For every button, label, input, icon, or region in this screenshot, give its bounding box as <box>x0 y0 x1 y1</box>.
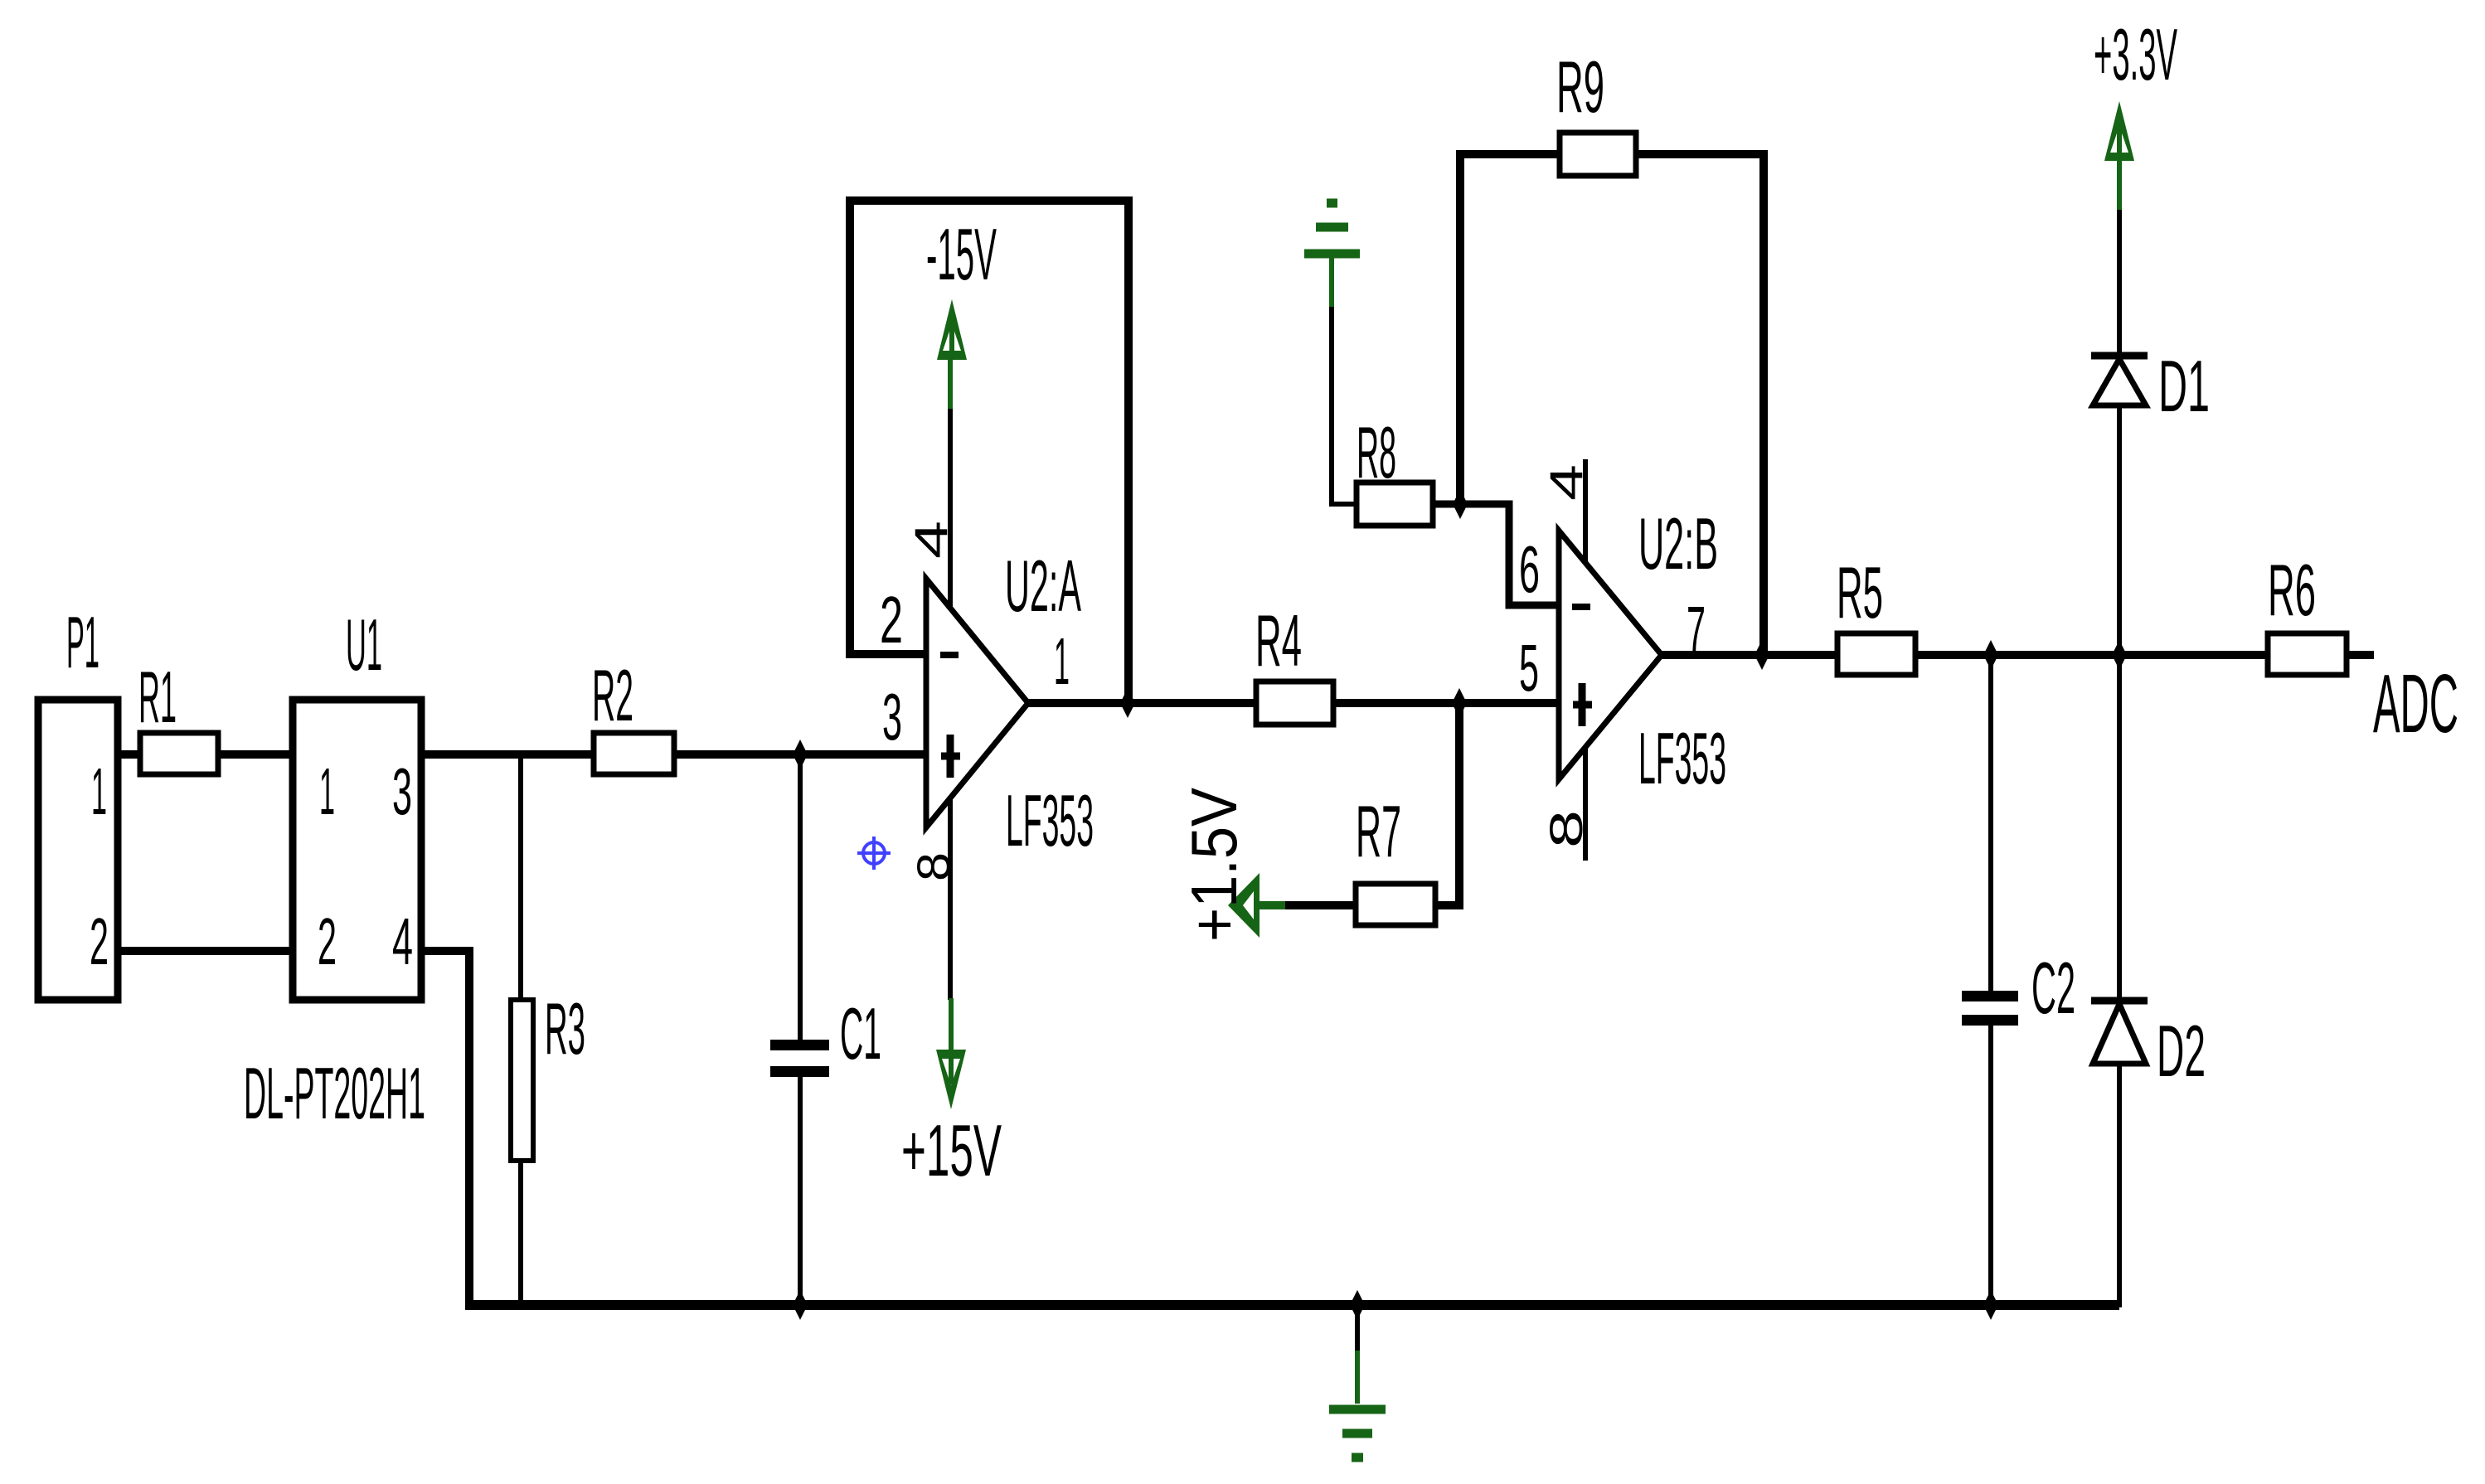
svg-text:ADC: ADC <box>2373 657 2458 750</box>
svg-text:2: 2 <box>90 904 109 978</box>
svg-text:R9: R9 <box>1556 46 1604 128</box>
svg-text:-15V: -15V <box>926 213 997 295</box>
svg-text:3: 3 <box>392 754 412 828</box>
svg-text:4: 4 <box>905 521 957 559</box>
svg-text:R1: R1 <box>138 656 177 738</box>
svg-text:U1: U1 <box>346 604 382 686</box>
svg-text:+15V: +15V <box>901 1109 1002 1191</box>
svg-text:8: 8 <box>1540 810 1592 848</box>
svg-text:U2:B: U2:B <box>1638 502 1718 584</box>
svg-text:R5: R5 <box>1837 551 1883 633</box>
svg-text:4: 4 <box>1540 464 1592 501</box>
svg-text:R7: R7 <box>1356 790 1401 872</box>
svg-text:C1: C1 <box>840 992 881 1074</box>
svg-text:5: 5 <box>1519 631 1539 705</box>
svg-text:1: 1 <box>1054 624 1070 698</box>
svg-text:4: 4 <box>392 904 413 978</box>
svg-text:DL-PT202H1: DL-PT202H1 <box>244 1052 425 1134</box>
svg-text:+3.3V: +3.3V <box>2094 13 2177 95</box>
svg-text:+1.5V: +1.5V <box>1177 788 1250 942</box>
svg-text:R6: R6 <box>2268 549 2316 631</box>
svg-text:R3: R3 <box>545 987 585 1069</box>
svg-text:LF353: LF353 <box>1006 779 1094 861</box>
svg-text:D2: D2 <box>2157 1010 2206 1092</box>
svg-text:R2: R2 <box>592 654 633 736</box>
svg-text:C2: C2 <box>2031 947 2075 1029</box>
svg-text:2: 2 <box>880 583 903 657</box>
svg-text:3: 3 <box>882 680 902 754</box>
svg-text:LF353: LF353 <box>1638 717 1726 799</box>
svg-text:D1: D1 <box>2158 345 2210 427</box>
svg-text:8: 8 <box>907 852 959 881</box>
svg-text:1: 1 <box>91 754 107 828</box>
svg-text:7: 7 <box>1687 593 1706 667</box>
svg-text:P1: P1 <box>66 601 99 683</box>
svg-text:U2:A: U2:A <box>1005 545 1081 627</box>
svg-text:6: 6 <box>1519 532 1540 606</box>
svg-text:2: 2 <box>318 904 337 978</box>
svg-text:1: 1 <box>319 754 335 828</box>
svg-text:R4: R4 <box>1255 599 1302 681</box>
svg-text:R8: R8 <box>1357 411 1396 493</box>
